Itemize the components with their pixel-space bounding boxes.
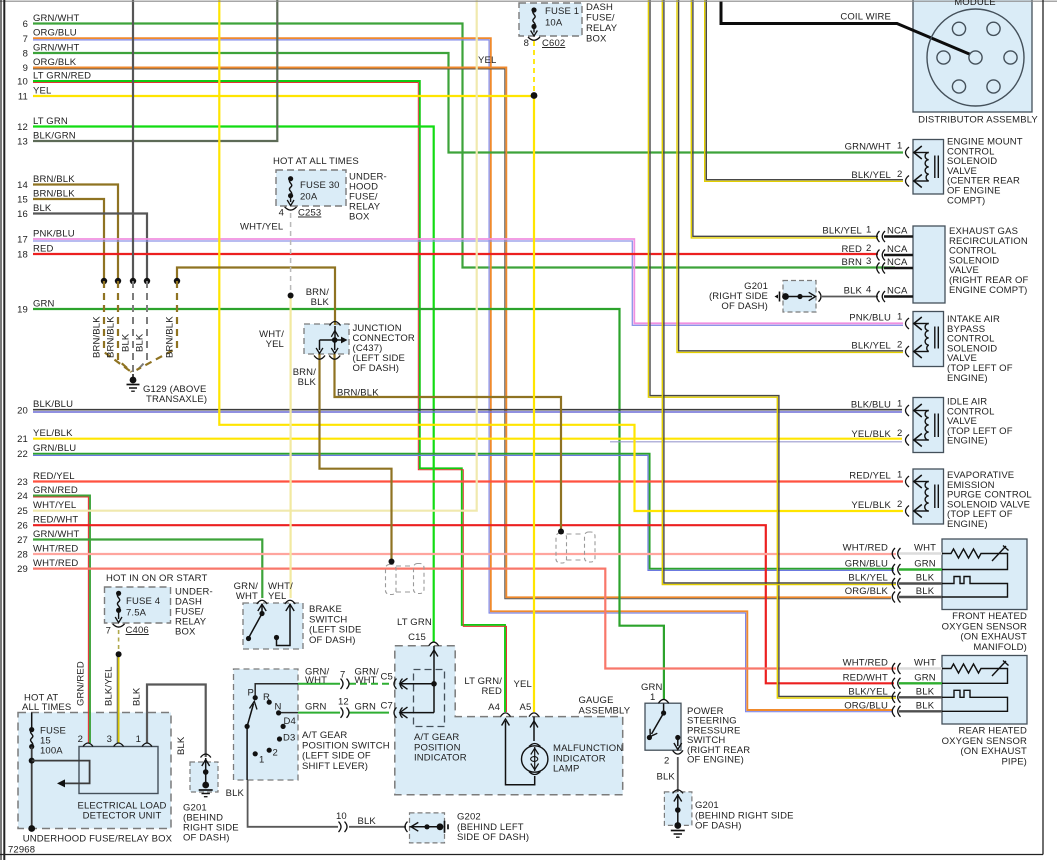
- A/T gear position indicator inner box: [414, 670, 445, 727]
- wire 28 WHT/RED: [33, 553, 896, 555]
- inline connector arcs pin7 wire: [341, 679, 350, 689]
- svg-text:BRN/BLK: BRN/BLK: [33, 174, 75, 185]
- lamp circuit wiring: [502, 717, 538, 785]
- labels pin7 wire: [305, 667, 393, 687]
- svg-text:BLK/GRN: BLK/GRN: [33, 131, 76, 142]
- svg-text:6: 6: [23, 19, 28, 30]
- wire BLK/YEL #2 from top to front O2 sensor pin 3: [662, 0, 896, 585]
- wire 26 RED/WHT: [33, 525, 894, 683]
- wire 27 GRN/WHT: [33, 540, 262, 599]
- wire 21 YEL/BLK: [33, 439, 902, 442]
- svg-text:2: 2: [897, 499, 902, 510]
- svg-text:YEL: YEL: [33, 86, 51, 97]
- svg-text:4: 4: [866, 285, 871, 296]
- svg-text:2: 2: [866, 243, 871, 254]
- distributor terminal top-left: [952, 22, 965, 35]
- pin 1 entry arc: [906, 318, 910, 329]
- wire BLK/YEL #3 from top to intake air bypass solenoid pin 2: [677, 0, 903, 352]
- label evap purge solenoid valve: [947, 470, 1032, 530]
- splice dot brown ghost left: [389, 559, 395, 565]
- wire BLK from G201 inline connector to EGR pin 4: [822, 296, 878, 298]
- label idle air control valve: [947, 397, 1013, 447]
- power steering pressure switch box: [645, 703, 681, 750]
- svg-text:10A: 10A: [545, 18, 563, 29]
- svg-text:BLK/YEL: BLK/YEL: [851, 341, 891, 352]
- svg-text:11: 11: [18, 92, 28, 103]
- distributor terminal mid-right: [1004, 51, 1017, 64]
- label malfunction indicator lamp: [553, 743, 623, 775]
- wire 12 LT GRN: [33, 127, 434, 642]
- dashed drop BRN/BLK 2 to G129: [118, 281, 132, 372]
- distributor terminal center: [969, 51, 982, 64]
- label BRN/BLK below C437 left: [293, 367, 317, 388]
- svg-text:LAMP: LAMP: [553, 764, 579, 775]
- PS switch contacts: [647, 704, 682, 750]
- svg-text:2: 2: [273, 748, 278, 759]
- label brake switch: [309, 604, 362, 646]
- rear O2 pin arcs: [892, 663, 900, 717]
- svg-text:WHT/RED: WHT/RED: [33, 544, 78, 555]
- svg-text:2: 2: [897, 428, 902, 439]
- svg-text:GRN: GRN: [914, 672, 936, 683]
- svg-text:20: 20: [17, 406, 28, 417]
- svg-text:RED/YEL: RED/YEL: [33, 471, 75, 482]
- wire 20 BLK/BLU: [33, 410, 902, 412]
- svg-text:BLK: BLK: [916, 686, 935, 697]
- label A/T gear position switch: [302, 730, 390, 772]
- svg-text:7: 7: [340, 670, 345, 681]
- svg-text:YEL: YEL: [268, 591, 286, 602]
- splice dot BLK vertical: [130, 278, 136, 284]
- label A/T gear position indicator: [414, 732, 467, 764]
- svg-text:BRN/BLK: BRN/BLK: [337, 388, 379, 399]
- distributor terminal bottom-right: [987, 80, 1000, 93]
- svg-text:NCA: NCA: [887, 226, 908, 237]
- svg-text:BLK/YEL: BLK/YEL: [822, 226, 862, 237]
- label power steering pressure switch: [687, 706, 750, 766]
- svg-text:GRN/BLU: GRN/BLU: [845, 559, 888, 570]
- svg-text:COIL WIRE: COIL WIRE: [840, 12, 891, 23]
- rotated labels at G129 drops: [92, 316, 176, 358]
- row labels 19-24: [17, 299, 78, 503]
- svg-text:C5: C5: [381, 672, 393, 683]
- svg-text:4: 4: [279, 208, 284, 219]
- distributor cap circle: [927, 9, 1024, 106]
- label BRN/BLK below C437 right: [337, 388, 379, 399]
- svg-text:BLK: BLK: [33, 203, 52, 214]
- svg-text:TRANSAXLE): TRANSAXLE): [146, 394, 207, 405]
- wire BRN/BLK junction connector C437 right exit to ghost splice: [335, 354, 562, 531]
- wire 14 BRN/BLK: [33, 185, 118, 281]
- svg-text:GRN/WHT: GRN/WHT: [845, 142, 891, 153]
- splice dot WHT/YEL: [288, 293, 294, 299]
- svg-text:BOX: BOX: [586, 34, 607, 45]
- inline connector arcs pin12 wire: [341, 707, 350, 717]
- svg-text:72968: 72968: [8, 845, 35, 856]
- splice dot wire 16: [144, 278, 150, 284]
- distributor terminal bottom-left: [952, 80, 965, 93]
- wire 15 BRN/BLK: [33, 199, 104, 280]
- wire BLK from A/T gear position switch to G202: [248, 780, 406, 827]
- svg-text:WHT/YEL: WHT/YEL: [33, 500, 76, 511]
- svg-text:C406: C406: [126, 625, 149, 636]
- PS switch pin 2 exit arc: [673, 750, 683, 754]
- svg-text:10: 10: [17, 77, 28, 88]
- fuse 4 7.5A symbol: [115, 591, 122, 623]
- C7 entry arcs: [394, 707, 403, 717]
- svg-text:8: 8: [524, 38, 529, 49]
- svg-text:YEL/BLK: YEL/BLK: [33, 428, 73, 439]
- svg-text:BLK: BLK: [311, 297, 330, 308]
- wire WHT/YEL dashed tail below C253: [290, 213, 292, 296]
- wire YEL vertical from top to evap purge solenoid pin 2: [219, 0, 903, 511]
- fuse 15 100A symbol and feed: [28, 713, 89, 832]
- svg-text:OF DASH): OF DASH): [721, 301, 768, 312]
- splice dot brown ghost right: [558, 529, 564, 535]
- rotated labels GRN/RED BLK/YEL BLK: [76, 661, 188, 755]
- label G202: [457, 812, 529, 844]
- svg-text:WHT/RED: WHT/RED: [33, 558, 78, 569]
- dashed drop BRN/BLK to G129: [104, 281, 130, 371]
- labels idle air pins: [851, 399, 903, 441]
- wire 13 BLK/GRN: [33, 0, 277, 141]
- gear letters: [248, 688, 296, 766]
- wire 19 GRN: [33, 309, 664, 699]
- front heated oxygen sensor box: [942, 539, 1027, 610]
- svg-text:12: 12: [338, 697, 349, 708]
- svg-text:21: 21: [17, 434, 28, 445]
- svg-text:28: 28: [17, 550, 28, 561]
- svg-text:OF DASH): OF DASH): [353, 363, 400, 374]
- wire 23 RED/YEL: [33, 480, 903, 482]
- label BRN/BLK above C437: [306, 287, 330, 308]
- wire BLK from power steering switch pin 2 to G201: [677, 757, 679, 792]
- svg-text:WHT/RED: WHT/RED: [843, 543, 888, 554]
- wire 18 RED: [33, 253, 878, 255]
- svg-text:RED/YEL: RED/YEL: [849, 471, 891, 482]
- svg-text:MANIFOLD): MANIFOLD): [973, 642, 1027, 653]
- svg-text:BLK/YEL: BLK/YEL: [848, 573, 888, 584]
- svg-text:OF ENGINE): OF ENGINE): [687, 755, 744, 766]
- indicator internal wiring: [400, 646, 438, 718]
- front O2 sense element: [942, 577, 1008, 598]
- svg-text:GRN: GRN: [914, 559, 936, 570]
- svg-text:22: 22: [17, 449, 28, 460]
- svg-text:ORG/BLK: ORG/BLK: [33, 57, 77, 68]
- engine mount control solenoid valve box: [913, 140, 944, 195]
- splice dot YEL: [531, 92, 538, 99]
- G201 inline connector box (right side of dash, EGR): [783, 281, 816, 313]
- svg-text:BLK/YEL: BLK/YEL: [851, 170, 891, 181]
- svg-text:BRN: BRN: [841, 257, 862, 268]
- svg-text:ENGINE): ENGINE): [947, 436, 988, 447]
- label junction connector: [353, 323, 415, 374]
- labels EGR pins: [822, 225, 908, 297]
- wire 17 PNK/BLU: [33, 239, 903, 325]
- dashed drop BLK to G129: [132, 281, 134, 374]
- wire BLK/YEL dashed tail below C406: [118, 630, 120, 654]
- svg-text:1: 1: [897, 312, 902, 323]
- wire 11 YEL: [33, 95, 534, 97]
- C437 bottom exit arcs: [314, 356, 340, 360]
- A5 entry arc: [529, 713, 539, 717]
- labels intake air bypass pins: [849, 312, 902, 352]
- intake air bypass control solenoid valve box: [913, 312, 944, 367]
- solenoid coil: [913, 404, 938, 447]
- svg-text:RED: RED: [841, 244, 862, 255]
- svg-text:1: 1: [897, 141, 902, 152]
- svg-text:NCA: NCA: [887, 257, 908, 268]
- junction connector C437 box: [304, 324, 349, 354]
- svg-text:2: 2: [897, 340, 902, 351]
- svg-text:NCA: NCA: [887, 286, 908, 297]
- svg-text:10: 10: [336, 811, 347, 822]
- svg-text:WHT: WHT: [914, 658, 936, 669]
- svg-text:R: R: [263, 692, 270, 703]
- label WHT/YEL mid: [259, 329, 284, 350]
- wire BLK/YEL from splice down to ELD pin 3: [117, 654, 118, 743]
- svg-text:15: 15: [17, 195, 28, 206]
- svg-text:BRN/BLK: BRN/BLK: [92, 316, 103, 358]
- wire BLK from ELD pin 1 up and over to G201: [147, 685, 206, 758]
- ELD pin entry arcs 2,3,1: [83, 743, 152, 747]
- svg-text:P: P: [248, 688, 255, 699]
- fuse 30 20A symbol: [287, 176, 294, 206]
- wire coil wire (thick black): [721, 2, 974, 57]
- svg-text:A4: A4: [488, 702, 500, 713]
- C15 entry arc: [429, 642, 439, 646]
- fuse 1 10A symbol: [531, 7, 538, 36]
- solenoid coil: [913, 475, 938, 518]
- svg-text:BLK: BLK: [132, 687, 143, 706]
- labels front O2 pins: [843, 543, 936, 598]
- svg-text:16: 16: [17, 209, 28, 220]
- svg-text:2: 2: [664, 756, 669, 767]
- svg-text:9: 9: [23, 63, 28, 74]
- PS switch pin 1 entry arc: [658, 699, 668, 703]
- connector C406 arc: [113, 624, 125, 627]
- svg-text:ORG/BLU: ORG/BLU: [844, 700, 888, 711]
- svg-text:BLK: BLK: [135, 333, 146, 352]
- label intake air bypass solenoid valve: [947, 314, 1013, 384]
- svg-text:WHT/RED: WHT/RED: [843, 658, 888, 669]
- svg-text:ENGINE COMPT): ENGINE COMPT): [949, 285, 1027, 296]
- label fuse 1: [478, 2, 618, 66]
- svg-text:BLK: BLK: [657, 772, 676, 783]
- evaporative emission purge control solenoid valve box: [913, 469, 944, 524]
- svg-text:WHT: WHT: [355, 675, 377, 686]
- svg-text:23: 23: [17, 477, 28, 488]
- labels pin12 wire: [305, 697, 393, 713]
- svg-text:WHT: WHT: [305, 675, 327, 686]
- svg-text:ENGINE): ENGINE): [947, 373, 988, 384]
- dashed drop BRN/BLK 3 to G129: [137, 281, 178, 370]
- wire YEL from splice down to gauge assembly pin A5: [533, 96, 535, 713]
- label EGR solenoid valve: [949, 226, 1029, 296]
- svg-text:RED: RED: [33, 244, 54, 255]
- dashed drop BLK 2 to G129: [136, 281, 148, 372]
- svg-text:D3: D3: [283, 733, 295, 744]
- A4 entry arc: [501, 713, 511, 717]
- svg-text:BRN/BLK: BRN/BLK: [33, 189, 75, 200]
- svg-text:BLK: BLK: [121, 333, 132, 352]
- A/T switch contact stubs to pins: [255, 684, 298, 713]
- svg-text:29: 29: [17, 564, 28, 575]
- svg-text:YEL/BLK: YEL/BLK: [851, 429, 891, 440]
- pin 1 entry arc: [906, 405, 910, 416]
- svg-text:WHT: WHT: [914, 543, 936, 554]
- label COIL WIRE: [840, 12, 891, 23]
- wire 22 GRN/BLU: [33, 454, 894, 571]
- brake switch pin entry arcs: [257, 600, 295, 604]
- svg-text:BLK: BLK: [916, 586, 935, 597]
- svg-text:YEL/BLK: YEL/BLK: [851, 500, 891, 511]
- wire GRN/WHT A/T gear position switch pin 7 to indicator C5 (dashed segment): [298, 683, 389, 685]
- distributor terminal top-right: [987, 22, 1000, 35]
- svg-text:8: 8: [23, 49, 28, 60]
- underhood fuse/relay box (FUSE 30 / C253): [276, 170, 346, 206]
- svg-text:COMPT): COMPT): [947, 195, 985, 206]
- G201 ground box (behind right side of dash, below PS switch): [664, 792, 692, 826]
- pin 2 entry arc: [906, 176, 910, 187]
- svg-text:PIPE): PIPE): [1001, 756, 1027, 767]
- svg-text:FUSE 1: FUSE 1: [545, 6, 579, 17]
- ghost inline connector (right): [556, 532, 595, 563]
- malfunction indicator lamp: [522, 744, 548, 775]
- svg-text:BRN/BLK: BRN/BLK: [165, 316, 176, 358]
- svg-text:HOT AT ALL TIMES: HOT AT ALL TIMES: [273, 156, 359, 167]
- svg-text:12: 12: [17, 122, 28, 133]
- svg-text:BLK: BLK: [226, 788, 245, 799]
- G202 ground box (behind left side of dash): [410, 813, 445, 843]
- svg-text:MODULE: MODULE: [954, 0, 996, 8]
- svg-text:RED/WHT: RED/WHT: [33, 515, 78, 526]
- under-dash fuse/relay box (FUSE 4 / C406): [105, 587, 171, 623]
- C437 internal links: [316, 326, 347, 354]
- svg-text:DASH: DASH: [586, 2, 613, 13]
- svg-text:BLK: BLK: [358, 816, 377, 827]
- svg-text:1: 1: [259, 755, 264, 766]
- svg-text:BLK/BLU: BLK/BLU: [851, 400, 891, 411]
- pin 1 entry arc: [906, 147, 910, 158]
- front O2 pin arcs: [892, 548, 900, 603]
- svg-text:OF DASH): OF DASH): [183, 833, 230, 844]
- labels evap pins: [849, 470, 902, 512]
- svg-text:GRN/WHT: GRN/WHT: [33, 529, 79, 540]
- label 2 BLK: [657, 756, 676, 783]
- svg-text:ORG/BLU: ORG/BLU: [33, 28, 77, 39]
- wire 25 WHT/YEL: [33, 0, 477, 511]
- svg-text:7: 7: [23, 34, 28, 45]
- svg-text:BLK/YEL: BLK/YEL: [848, 686, 888, 697]
- splice dot BLK/YEL: [116, 651, 122, 657]
- label gauge assembly: [579, 695, 631, 716]
- svg-text:SIDE OF DASH): SIDE OF DASH): [457, 832, 529, 843]
- svg-text:26: 26: [17, 521, 28, 532]
- label MODULE (clipped by page top): [954, 0, 996, 8]
- svg-text:LT GRN: LT GRN: [397, 617, 432, 628]
- dash fuse/relay box (FUSE 1): [519, 3, 582, 36]
- gauge assembly / A/T gear position indicator dashed L-outline: [395, 646, 623, 795]
- svg-text:GRN: GRN: [355, 702, 377, 713]
- wire 10 LT GRN/RED: [33, 81, 507, 712]
- svg-text:20A: 20A: [300, 192, 318, 203]
- svg-text:BOX: BOX: [175, 627, 196, 638]
- label underhood fuse/relay box: [23, 834, 173, 845]
- rear O2 heater resistor: [942, 661, 1009, 684]
- svg-text:3: 3: [866, 256, 871, 267]
- svg-text:BLK: BLK: [916, 573, 935, 584]
- label 10 BLK at G202 wire: [336, 811, 376, 827]
- label engine mount control solenoid valve: [947, 137, 1023, 207]
- svg-text:ASSEMBLY: ASSEMBLY: [579, 705, 631, 716]
- wire BLK/YEL #1 from top to rear O2 sensor pin 3: [648, 0, 896, 698]
- svg-text:ENGINE): ENGINE): [947, 519, 988, 530]
- label ELD: [77, 734, 166, 822]
- svg-text:DETECTOR UNIT: DETECTOR UNIT: [83, 811, 162, 822]
- A/T switch common blade: [245, 701, 258, 780]
- A/T switch position contacts: [253, 695, 286, 756]
- svg-text:YEL: YEL: [478, 55, 496, 66]
- svg-text:INDICATOR: INDICATOR: [414, 753, 467, 764]
- svg-text:BRN/BLK: BRN/BLK: [106, 316, 117, 358]
- EGR pin 2 arcs and lead: [877, 250, 913, 261]
- svg-text:HOT IN ON OR START: HOT IN ON OR START: [106, 573, 207, 584]
- wire 16 BLK: [33, 214, 147, 281]
- solenoid coil: [913, 146, 938, 188]
- idle air control valve box: [913, 398, 944, 453]
- label rear heated oxygen sensor: [942, 726, 1027, 768]
- row labels 6-13: [17, 13, 91, 148]
- wire 8 GRN/WHT: [33, 53, 903, 153]
- inline connector arcs BLK wire 10: [339, 822, 348, 832]
- svg-text:7.5A: 7.5A: [126, 608, 147, 619]
- rear heated oxygen sensor box: [942, 656, 1027, 725]
- pin 2 entry arc: [906, 435, 910, 446]
- labels rear O2 pins: [843, 658, 936, 712]
- ghost inline connector (left, below C437): [386, 564, 425, 595]
- label WHT/YEL at brake switch: [268, 581, 293, 602]
- A/T gear position switch box: [234, 669, 299, 780]
- splice dot wire 14: [115, 278, 121, 284]
- G201 (below PS switch) internals: [671, 790, 685, 837]
- svg-text:OF DASH): OF DASH): [695, 821, 742, 832]
- wire 6 GRN/WHT: [33, 24, 895, 268]
- svg-text:C7: C7: [381, 701, 393, 712]
- label LT GRN/RED and YEL at A4/A5: [464, 676, 532, 713]
- svg-text:FUSE 30: FUSE 30: [300, 180, 340, 191]
- wire BRN/BLK from G129 splice up and over to junction connector C437: [177, 268, 335, 326]
- ground G129: [127, 374, 140, 391]
- svg-text:PNK/BLU: PNK/BLU: [849, 313, 891, 324]
- labels engine mount pins: [845, 141, 903, 182]
- electrical load detector unit box: [79, 747, 158, 794]
- wire 29 WHT/RED: [33, 569, 896, 669]
- row labels 25-29: [17, 500, 79, 575]
- wire 7 ORG/BLU: [33, 38, 893, 712]
- svg-text:7: 7: [106, 626, 111, 637]
- svg-text:ORG/BLK: ORG/BLK: [845, 586, 889, 597]
- svg-text:13: 13: [17, 137, 28, 148]
- wire BRN/BLK junction connector C437 left exit down to ghost splice: [320, 354, 392, 561]
- svg-text:RED/WHT: RED/WHT: [843, 672, 888, 683]
- brake switch box: [243, 603, 303, 649]
- solenoid coil: [913, 317, 938, 358]
- rear O2 sense element: [942, 690, 1008, 711]
- row labels 14-18: [17, 174, 75, 261]
- C5 entry arcs: [394, 679, 403, 689]
- svg-text:NCA: NCA: [887, 244, 908, 255]
